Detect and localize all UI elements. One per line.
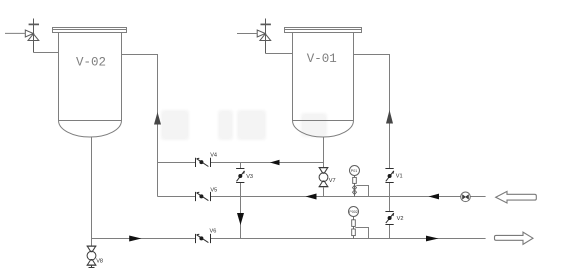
vessel V-01 lid xyxy=(285,28,362,33)
svg-text:V3: V3 xyxy=(246,174,253,180)
arrow left on upper main near inlet xyxy=(429,194,440,200)
svg-text:V-01: V-01 xyxy=(307,52,337,66)
valve V3 xyxy=(236,169,244,183)
svg-text:V5: V5 xyxy=(210,188,217,194)
pressure gauge P02 xyxy=(349,207,369,239)
wire RV V-02 inlet xyxy=(5,32,25,34)
watermark xyxy=(161,110,327,140)
arrow up on V-02 riser xyxy=(154,112,161,125)
wire V-02 bottom outlet xyxy=(91,137,93,246)
svg-text:V6: V6 xyxy=(210,228,217,234)
valve V6 xyxy=(196,234,211,243)
instrument circle on upper main xyxy=(461,192,471,202)
vessel V-02 body xyxy=(59,33,122,138)
svg-text:V8: V8 xyxy=(96,259,103,265)
arrow up on V-01 riser xyxy=(386,110,393,124)
wire RV V-02 to vessel xyxy=(34,52,59,54)
wire upper main line xyxy=(158,196,486,198)
inlet open arrow xyxy=(496,191,537,203)
svg-text:V2: V2 xyxy=(397,216,404,222)
svg-text:V7: V7 xyxy=(329,178,336,184)
valve V5 xyxy=(196,192,211,201)
svg-text:P002: P002 xyxy=(349,210,357,214)
valve V2 xyxy=(385,212,393,225)
arrow down on V3 branch xyxy=(237,213,244,225)
wire V1-V2 riser segments xyxy=(389,183,391,239)
ball valve V7 xyxy=(319,168,329,187)
wire V-02 right riser xyxy=(122,55,158,197)
wire V-01 right riser xyxy=(354,55,390,169)
svg-text:V-02: V-02 xyxy=(76,56,106,70)
wire V-01 bottom outlet xyxy=(323,137,325,197)
svg-text:V1: V1 xyxy=(396,174,403,180)
outlet open arrow xyxy=(495,232,534,244)
valve V1 xyxy=(385,169,393,183)
ball valve V8 xyxy=(87,246,97,268)
wire RV V-01 to vessel xyxy=(266,53,293,55)
arrow left on upper main near V7 xyxy=(306,194,317,200)
pressure gauge P01 xyxy=(350,166,369,197)
wire V4 line xyxy=(158,162,324,164)
arrow right on lower main near V8 xyxy=(129,236,141,242)
valve V4 xyxy=(196,158,211,167)
svg-text:P01: P01 xyxy=(351,169,357,173)
wire V3 branch xyxy=(240,163,242,239)
relief valve on V-02 xyxy=(25,19,39,53)
wire RV V-01 inlet xyxy=(237,33,257,35)
svg-text:V4: V4 xyxy=(210,152,217,158)
vessel V-02 lid xyxy=(53,28,127,33)
relief valve on V-01 xyxy=(257,19,271,54)
wire lower main line xyxy=(92,238,486,240)
vessel V-01 body xyxy=(293,33,354,138)
arrow left on V4 line xyxy=(270,160,280,165)
arrow right on lower main near outlet xyxy=(426,236,439,242)
